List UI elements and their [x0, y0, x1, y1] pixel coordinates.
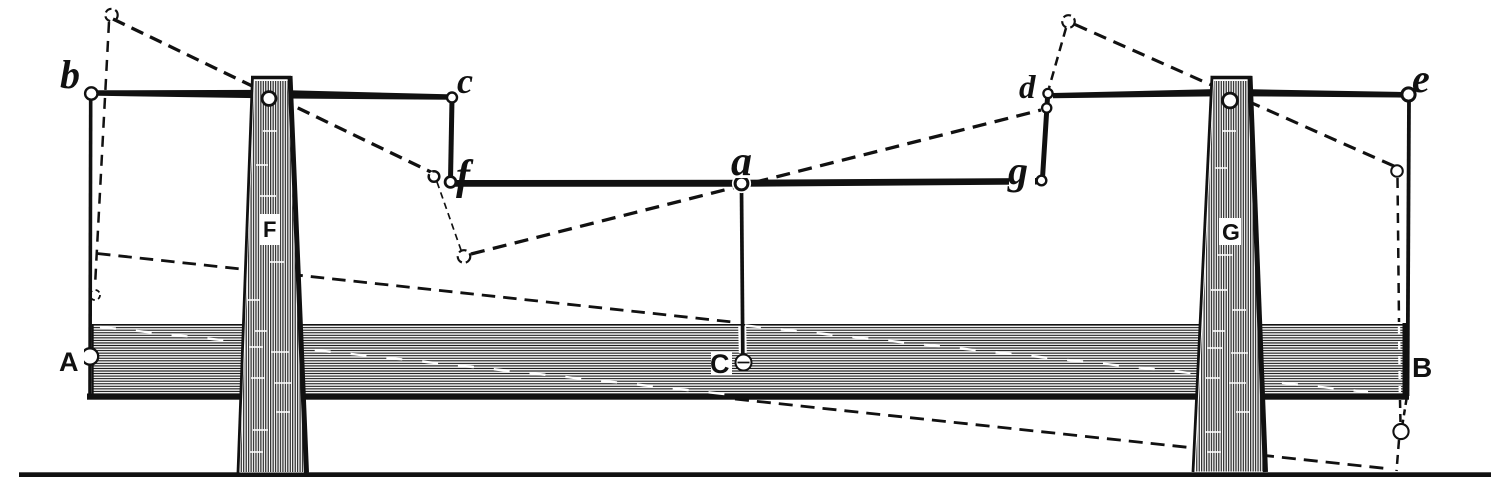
dashed joint f' [458, 250, 471, 263]
dashed beam b'-c' (behind pillar) [113, 19, 433, 173]
svg-text:g: g [1007, 148, 1028, 193]
joint a [732, 174, 751, 193]
joint B' [1393, 424, 1408, 439]
dashed link c'-f' [437, 182, 461, 250]
link d-g [1043, 98, 1048, 178]
label C [711, 352, 732, 375]
svg-text:b: b [60, 52, 80, 97]
dashed joint b' [105, 9, 117, 21]
dashed link e'-B' (above band) [1398, 178, 1400, 322]
dashed joint d' [1062, 15, 1075, 28]
bar f-a-g [454, 178, 1039, 187]
joint A [82, 348, 98, 364]
pillar F white hatch breaks [248, 131, 291, 452]
svg-text:a: a [731, 139, 752, 185]
dashed link e'-B' (below band) [1399, 400, 1402, 423]
tilted band bottom edge (white dashes inside band) [100, 327, 729, 395]
dashed bar f'-g' [471, 110, 1041, 254]
beam d-e [1053, 89, 1403, 98]
dashed link B'-ground [1397, 440, 1400, 471]
svg-text:e: e [1412, 56, 1430, 101]
label G [1219, 218, 1241, 245]
svg-text:c: c [457, 61, 473, 101]
label g [1009, 165, 1035, 186]
label B [1411, 352, 1435, 380]
dashed beam d'-e' (behind pillar) [1075, 25, 1396, 168]
svg-text:A: A [59, 347, 79, 377]
rod a-C [738, 326, 747, 353]
joint b [85, 87, 97, 99]
tilted band bottom edge (black dashed, right of band) [735, 399, 1391, 469]
dashed band corner-B' [1403, 399, 1407, 424]
svg-text:F: F [263, 217, 276, 242]
joint g [1037, 176, 1047, 186]
label F [260, 214, 280, 245]
link c-f [451, 99, 453, 180]
ground line [19, 472, 1491, 477]
joint c [447, 93, 457, 103]
pin C [736, 355, 752, 371]
pillar G white hatch breaks [1205, 131, 1250, 452]
link e-B [1408, 99, 1410, 396]
svg-text:C: C [710, 349, 730, 379]
pillar F pivot [262, 92, 276, 106]
link b-A [88, 98, 92, 396]
joint g-prime [1042, 103, 1051, 112]
tilted band top edge (white dashes inside band) [745, 326, 1368, 393]
svg-text:B: B [1412, 352, 1432, 383]
hatched float band A-B [87, 323, 1409, 400]
tilted band top edge (black dashed, left of band) [97, 254, 737, 323]
pillar G pivot [1223, 93, 1238, 108]
joint f [445, 177, 456, 188]
beam b-c [97, 90, 452, 100]
svg-text:G: G [1222, 219, 1240, 245]
pillar F [238, 76, 307, 473]
joint d [1043, 89, 1052, 98]
pillar G [1193, 76, 1266, 472]
dashed joint A' [90, 290, 100, 300]
joint e' [1391, 165, 1403, 177]
svg-text:d: d [1019, 70, 1036, 106]
label a [731, 152, 765, 178]
dashed link d'-d [1049, 28, 1066, 88]
joint e [1402, 88, 1415, 101]
dashed link b'-A' [95, 22, 109, 286]
dashed link e'-B' (white inside band) [1398, 326, 1401, 392]
label A [58, 348, 84, 374]
dashed joint c' [429, 171, 440, 182]
